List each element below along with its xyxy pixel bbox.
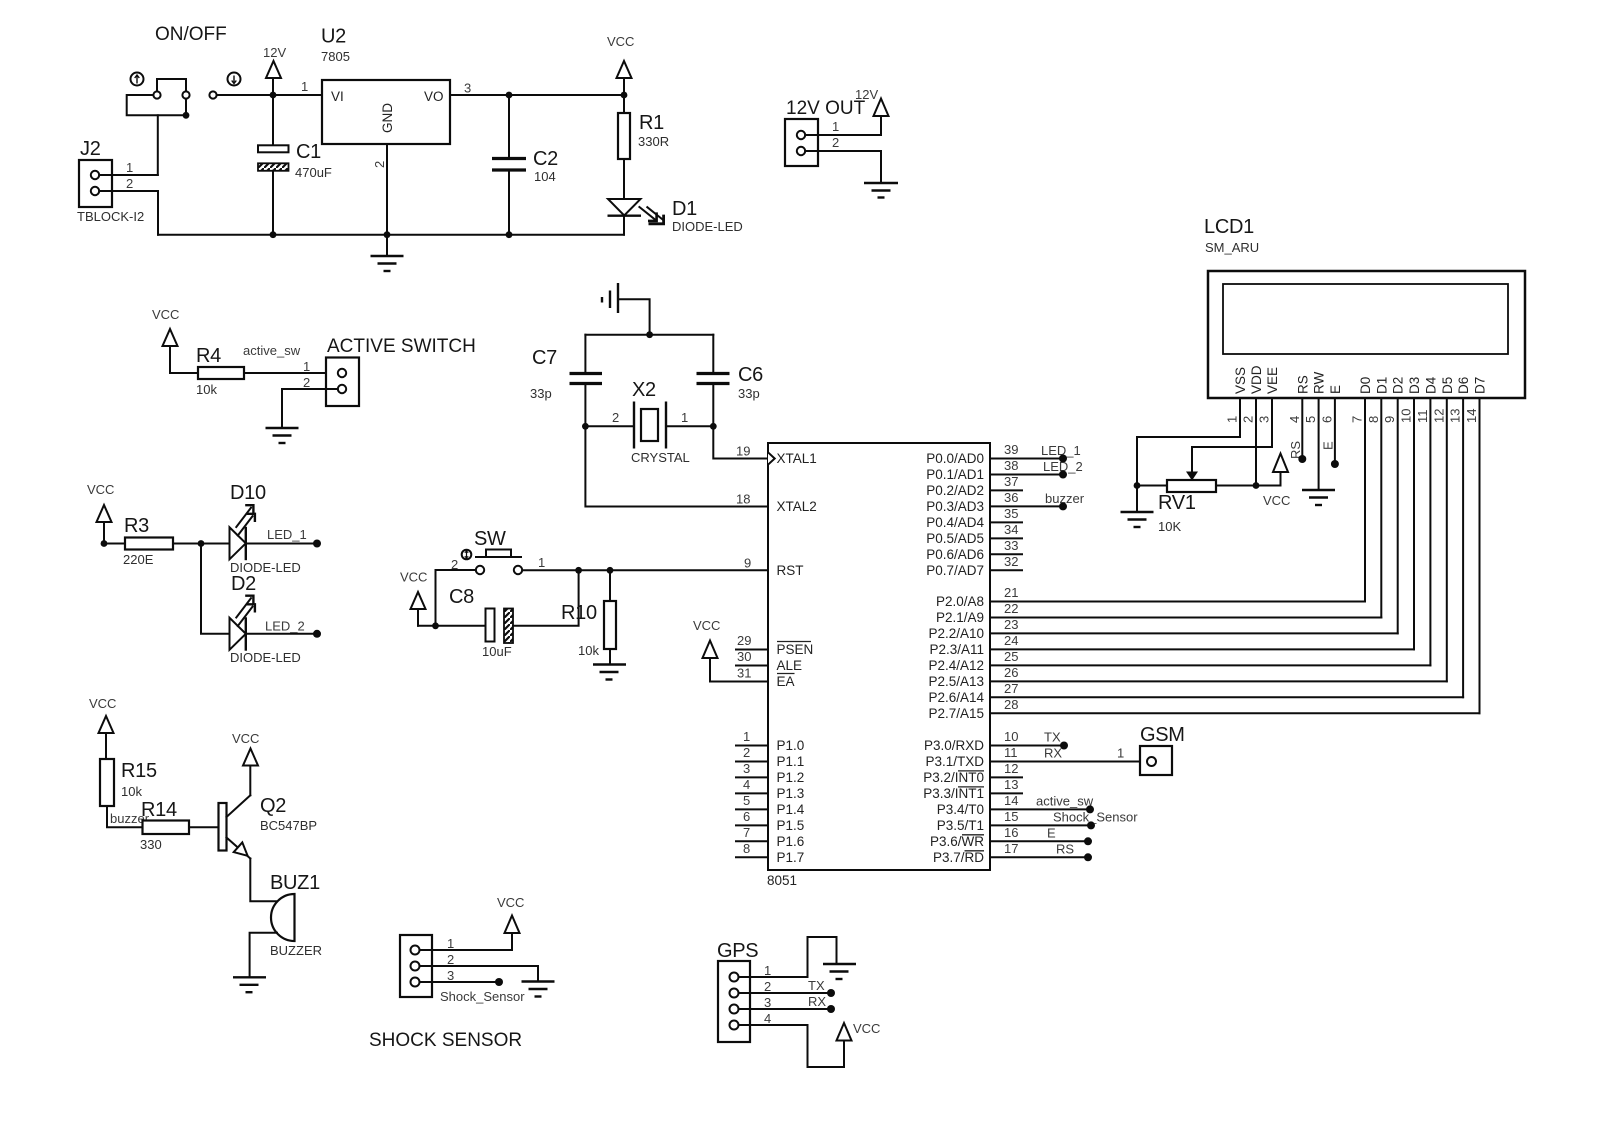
svg-text:R3: R3 — [124, 515, 149, 537]
svg-text:2: 2 — [126, 176, 133, 191]
svg-text:1: 1 — [126, 160, 133, 175]
svg-text:7805: 7805 — [321, 49, 350, 64]
svg-text:E: E — [1328, 385, 1343, 394]
8051 pin 5 P1.4 — [736, 793, 805, 817]
wire stub pin 37 — [990, 489, 1022, 491]
svg-text:12V: 12V — [263, 45, 286, 60]
svg-text:25: 25 — [1004, 649, 1018, 664]
svg-text:3: 3 — [464, 81, 471, 96]
resistor R14 330 — [140, 799, 189, 852]
svg-text:P2.3/A11: P2.3/A11 — [929, 642, 984, 657]
svg-text:VEE: VEE — [1265, 367, 1280, 394]
RV1 wiper arrowhead — [1186, 472, 1198, 481]
svg-text:RV1: RV1 — [1158, 492, 1196, 514]
svg-text:2: 2 — [303, 375, 310, 390]
svg-text:VCC: VCC — [497, 895, 524, 910]
wire stub pin 12 — [990, 776, 1022, 778]
svg-text:PSEN: PSEN — [777, 642, 814, 657]
svg-text:P2.6/A14: P2.6/A14 — [928, 690, 984, 705]
svg-text:R4: R4 — [196, 345, 221, 367]
svg-text:BUZZER: BUZZER — [270, 943, 322, 958]
svg-text:9: 9 — [1382, 416, 1397, 423]
svg-text:10k: 10k — [578, 643, 599, 658]
svg-text:Shock_Sensor: Shock_Sensor — [440, 989, 525, 1004]
svg-text:LED_1: LED_1 — [267, 527, 307, 542]
wire P2.7/A15 to LCD D7 — [990, 712, 1480, 714]
wire XTAL1 to 8051 pin 19 — [713, 426, 766, 458]
svg-text:10k: 10k — [121, 784, 142, 799]
wire LCD pin4 to terminal RS — [1288, 398, 1306, 463]
wire LCD D6 bus vertical — [1462, 398, 1464, 697]
junction C8 left node — [432, 622, 439, 629]
junction RST C8 — [575, 567, 582, 574]
8051 pin 19 XTAL1 clock marker — [768, 451, 817, 466]
svg-text:D6: D6 — [1456, 377, 1471, 394]
8051 pin 14 P3.4/T0 — [937, 793, 1019, 817]
svg-text:21: 21 — [1004, 585, 1018, 600]
capacitor C7 33p — [530, 335, 602, 427]
svg-text:16: 16 — [1004, 825, 1018, 840]
svg-text:VCC: VCC — [152, 307, 179, 322]
switch ON/OFF down-indicator — [228, 73, 241, 86]
svg-text:26: 26 — [1004, 665, 1018, 680]
svg-text:P2.1/A9: P2.1/A9 — [936, 610, 984, 625]
wire throw to 12V node — [217, 94, 273, 96]
svg-text:P0.2/AD2: P0.2/AD2 — [926, 483, 984, 498]
svg-text:TX: TX — [808, 978, 825, 993]
8051 pin 39 P0.0/AD0 — [926, 442, 1018, 466]
svg-text:3: 3 — [1257, 416, 1272, 423]
wire P2.2/A10 to LCD D2 — [990, 632, 1398, 634]
wire switch to J2 pin1 — [157, 115, 159, 175]
GSM module — [1140, 724, 1185, 775]
svg-text:2: 2 — [743, 745, 750, 760]
svg-text:D7: D7 — [1473, 377, 1488, 394]
svg-text:C2: C2 — [533, 148, 558, 170]
svg-text:X2: X2 — [632, 379, 656, 401]
svg-text:470uF: 470uF — [295, 165, 332, 180]
svg-text:29: 29 — [737, 633, 751, 648]
svg-text:Q2: Q2 — [260, 795, 286, 817]
LED D10 — [230, 482, 301, 575]
svg-text:C7: C7 — [532, 347, 557, 369]
svg-text:3: 3 — [743, 761, 750, 776]
svg-text:P2.4/A12: P2.4/A12 — [928, 658, 984, 673]
svg-text:BUZ1: BUZ1 — [270, 872, 320, 894]
svg-text:VCC: VCC — [232, 731, 259, 746]
svg-text:P1.2: P1.2 — [777, 770, 805, 785]
svg-text:P3.4/T0: P3.4/T0 — [937, 802, 984, 817]
svg-text:XTAL2: XTAL2 — [777, 499, 817, 514]
svg-text:P3.1/TXD: P3.1/TXD — [925, 754, 984, 769]
8051 pin 36 P0.3/AD3 — [926, 490, 1018, 514]
svg-text:17: 17 — [1004, 841, 1018, 856]
svg-text:P3.3/INT1: P3.3/INT1 — [923, 786, 984, 801]
svg-text:R14: R14 — [141, 799, 177, 821]
GPS connector — [717, 940, 771, 1042]
wire 12V OUT pin2 — [805, 151, 881, 183]
ground sideways above crystal — [602, 283, 650, 335]
wire D2 to terminal LED_2 — [246, 619, 314, 634]
junction C2 top — [506, 92, 513, 99]
ground below RV1 — [1121, 512, 1154, 527]
8051 pin 27 P2.6/A14 — [928, 681, 1018, 705]
svg-text:P3.6/WR: P3.6/WR — [930, 834, 984, 849]
capacitor C8 10uF — [449, 586, 513, 659]
svg-text:31: 31 — [737, 666, 751, 681]
wire 12V node to U2 VI pin 1 — [273, 79, 322, 95]
ground below RW — [1302, 490, 1335, 505]
terminal dot LED_2 — [313, 630, 321, 638]
8051 pin 21 P2.0/A8 — [936, 585, 1019, 609]
svg-text:VO: VO — [424, 89, 444, 104]
capacitor C2 104 — [492, 95, 558, 235]
power flag 12V out — [855, 87, 889, 116]
buzzer BUZ1 — [270, 872, 322, 958]
svg-text:DIODE-LED: DIODE-LED — [672, 219, 743, 234]
wire LCD D3 bus vertical — [1413, 398, 1415, 649]
power flag VCC for R15 — [89, 696, 116, 759]
8051 pin 37 P0.2/AD2 — [926, 474, 1018, 498]
wire U2 GND pin 2 — [386, 144, 388, 235]
svg-text:10K: 10K — [1158, 519, 1181, 534]
terminal dot LED_1 — [313, 540, 321, 548]
regulator U2 7805 — [321, 26, 450, 169]
power flag VCC for R4 — [152, 307, 179, 373]
wire shock pin3 to terminal Shock_Sensor — [420, 978, 526, 1004]
svg-text:23: 23 — [1004, 617, 1018, 632]
svg-text:GPS: GPS — [717, 940, 758, 962]
junction crystal top rail — [646, 331, 653, 338]
svg-text:4: 4 — [743, 777, 750, 792]
svg-text:RX: RX — [1044, 746, 1062, 761]
svg-text:4: 4 — [1287, 416, 1302, 423]
svg-text:P2.5/A13: P2.5/A13 — [928, 674, 984, 689]
wire LCD D4 bus vertical — [1429, 398, 1431, 665]
svg-text:VCC: VCC — [853, 1021, 880, 1036]
svg-text:34: 34 — [1004, 522, 1018, 537]
IC U1 8051 body — [767, 443, 990, 888]
8051 pin 35 P0.4/AD4 — [926, 506, 1018, 530]
svg-text:2: 2 — [372, 161, 387, 168]
junction LED branch — [198, 540, 205, 547]
8051 pin 31 EA — [737, 666, 795, 690]
svg-text:VCC: VCC — [400, 570, 427, 585]
svg-text:Shock_Sensor: Shock_Sensor — [1053, 809, 1138, 824]
svg-text:LED_2: LED_2 — [265, 619, 305, 634]
svg-text:VSS: VSS — [1233, 367, 1248, 394]
wire SW pin2 to VCC node — [436, 570, 476, 626]
svg-text:GSM: GSM — [1140, 724, 1185, 746]
svg-text:P3.5/T1: P3.5/T1 — [937, 818, 984, 833]
8051 pin 7 P1.6 — [736, 825, 804, 849]
power flag VCC for VDD — [1256, 454, 1290, 509]
svg-text:2: 2 — [1241, 416, 1256, 423]
power flag 12V input — [263, 45, 286, 95]
8051 pin 1 P1.0 — [736, 729, 804, 753]
svg-text:LCD1: LCD1 — [1204, 216, 1254, 238]
svg-text:5: 5 — [743, 793, 750, 808]
svg-text:P0.4/AD4: P0.4/AD4 — [926, 515, 984, 530]
8051 pin 2 P1.1 — [736, 745, 804, 769]
svg-text:27: 27 — [1004, 681, 1018, 696]
svg-text:P3.2/INT0: P3.2/INT0 — [923, 770, 984, 785]
junction switch common — [183, 112, 190, 119]
wire crystal top rail — [585, 334, 713, 336]
svg-text:10: 10 — [1004, 729, 1018, 744]
svg-text:18: 18 — [736, 492, 750, 507]
svg-text:P1.0: P1.0 — [777, 738, 805, 753]
svg-text:7: 7 — [1350, 416, 1365, 423]
junction C1 bottom — [270, 231, 277, 238]
wire pin 38 to terminal LED_2 — [990, 459, 1083, 479]
wire buzzer bottom to ground — [250, 933, 277, 978]
svg-text:33p: 33p — [530, 386, 552, 401]
svg-text:33p: 33p — [738, 386, 760, 401]
svg-text:1: 1 — [743, 729, 750, 744]
wire SW pin1 to 8051 RST pin 9 — [522, 556, 768, 571]
svg-text:1: 1 — [764, 963, 771, 978]
svg-text:P0.3/AD3: P0.3/AD3 — [926, 499, 984, 514]
ground below R10 — [593, 665, 626, 680]
svg-text:SW: SW — [474, 528, 506, 550]
wire R14 to Q2 base — [189, 826, 219, 828]
crystal X2 — [585, 379, 713, 465]
junction R1 top — [621, 92, 628, 99]
wire switch right contact drop — [185, 99, 187, 116]
resistor R3 220E — [123, 515, 173, 567]
wire VCC node to C8 — [418, 625, 486, 627]
svg-text:36: 36 — [1004, 490, 1018, 505]
wire ground rail — [158, 234, 624, 236]
8051 pin 4 P1.3 — [736, 777, 804, 801]
svg-text:P0.5/AD5: P0.5/AD5 — [926, 531, 984, 546]
svg-text:E: E — [1321, 441, 1336, 450]
svg-text:P1.1: P1.1 — [777, 754, 805, 769]
svg-text:ON/OFF: ON/OFF — [155, 24, 227, 45]
svg-text:ACTIVE SWITCH: ACTIVE SWITCH — [327, 336, 476, 357]
wire Q2 emitter to buzzer — [250, 859, 276, 902]
svg-text:VCC: VCC — [89, 696, 116, 711]
wire LCD D1 bus vertical — [1380, 398, 1382, 618]
push button SW — [451, 528, 545, 574]
wire pin 16 to terminal E — [990, 825, 1092, 845]
svg-text:RS: RS — [1056, 841, 1074, 856]
wire R15 to R14, net buzzer — [107, 806, 150, 827]
wire P2.0/A8 to LCD D0 — [990, 601, 1365, 603]
svg-text:P0.7/AD7: P0.7/AD7 — [926, 563, 984, 578]
svg-text:1: 1 — [301, 79, 308, 94]
svg-text:10uF: 10uF — [482, 644, 512, 659]
svg-text:R15: R15 — [121, 760, 157, 782]
LED D1 — [608, 198, 743, 235]
svg-text:C1: C1 — [296, 141, 321, 163]
ground active switch — [266, 428, 299, 443]
wire 12V OUT pin1 — [805, 116, 881, 135]
svg-text:E: E — [1047, 825, 1056, 840]
svg-text:11: 11 — [1004, 745, 1018, 760]
wire LCD pin3 VEE to RV1 wiper — [1192, 398, 1272, 473]
svg-text:8: 8 — [743, 841, 750, 856]
svg-text:RS: RS — [1295, 375, 1310, 394]
wire stub pin 13 — [990, 792, 1022, 794]
wire stub pin 34 — [990, 537, 1022, 539]
svg-text:VDD: VDD — [1249, 365, 1264, 394]
svg-text:ALE: ALE — [777, 658, 803, 673]
wire LCD D5 bus vertical — [1446, 398, 1448, 681]
power flag VCC for GPS — [837, 1021, 881, 1041]
8051 pin 34 P0.5/AD5 — [926, 522, 1018, 546]
svg-text:P1.3: P1.3 — [777, 786, 805, 801]
svg-text:1: 1 — [447, 936, 454, 951]
8051 pin 3 P1.2 — [736, 761, 804, 785]
wire LCD D7 bus vertical — [1479, 398, 1481, 713]
svg-text:35: 35 — [1004, 506, 1018, 521]
svg-text:VCC: VCC — [87, 482, 114, 497]
svg-text:6: 6 — [1319, 416, 1334, 423]
wire J2 pin1 — [99, 174, 158, 176]
svg-text:C6: C6 — [738, 364, 763, 386]
connector ACTIVE SWITCH — [326, 358, 359, 407]
svg-text:10: 10 — [1399, 409, 1414, 423]
wire pin 11 to GSM pin 1 — [990, 746, 1147, 762]
svg-text:1: 1 — [681, 410, 688, 425]
LED D10 emission arrows — [236, 505, 255, 535]
ground shock sensor — [522, 982, 555, 997]
8051 pin 26 P2.5/A13 — [928, 665, 1018, 689]
svg-text:2: 2 — [764, 979, 771, 994]
svg-text:D5: D5 — [1440, 377, 1455, 394]
LED D2 — [230, 573, 301, 665]
wire VCC to R4 — [170, 372, 198, 374]
8051 pin 16 P3.6/WR — [930, 825, 1018, 849]
8051 pin 11 P3.1/TXD — [925, 745, 1017, 769]
wire C8 right to RST rail — [513, 570, 579, 626]
potentiometer RV1 10K — [1137, 480, 1256, 534]
wire P2.4/A12 to LCD D4 — [990, 664, 1430, 666]
wire P2.1/A9 to LCD D1 — [990, 617, 1381, 619]
switch ON/OFF up-indicator — [131, 73, 144, 86]
wire XTAL2 to 8051 pin 18 — [585, 426, 768, 506]
switch ON/OFF contact left — [153, 91, 160, 98]
8051 pin 22 P2.1/A9 — [936, 601, 1019, 625]
8051 pin 10 P3.0/RXD — [924, 729, 1019, 753]
capacitor C6 33p — [697, 335, 764, 427]
svg-text:38: 38 — [1004, 458, 1018, 473]
svg-text:P0.0/AD0: P0.0/AD0 — [926, 451, 984, 466]
svg-text:SM_ARU: SM_ARU — [1205, 240, 1259, 255]
resistor R15 10k — [100, 759, 157, 806]
wire pin 15 to terminal Shock_Sensor — [990, 809, 1138, 829]
wire shock pin1 to VCC — [420, 933, 513, 950]
wire LCD pin2 VDD down — [1255, 398, 1257, 486]
junction XTAL2 node — [582, 423, 589, 430]
svg-text:330R: 330R — [638, 134, 669, 149]
LCD module LCD1 SM_ARU — [1204, 216, 1525, 398]
svg-text:VCC: VCC — [1263, 493, 1290, 508]
svg-text:GND: GND — [380, 103, 395, 133]
SHOCK SENSOR connector — [400, 935, 454, 997]
power flag VCC for EA — [693, 618, 768, 682]
svg-text:P1.5: P1.5 — [777, 818, 805, 833]
wire R4 to connector, net active_sw — [243, 343, 338, 390]
push button SW actuator indicator — [462, 550, 472, 560]
wire R3 to D10 — [173, 543, 230, 545]
svg-text:R1: R1 — [639, 112, 664, 134]
8051 pin 15 P3.5/T1 — [937, 809, 1019, 833]
svg-text:C8: C8 — [449, 586, 474, 608]
resistor R4 10k — [196, 345, 244, 397]
8051 pin 33 P0.6/AD6 — [926, 538, 1018, 562]
svg-text:P0.6/AD6: P0.6/AD6 — [926, 547, 984, 562]
svg-text:D10: D10 — [230, 482, 266, 504]
LED D2 emission arrows — [236, 596, 255, 626]
power flag VCC for Q2 collector — [232, 731, 259, 795]
wire pin 39 to terminal LED_1 — [990, 443, 1081, 463]
svg-text:2: 2 — [612, 410, 619, 425]
svg-text:30: 30 — [737, 649, 751, 664]
8051 pin 29 PSEN — [736, 633, 813, 657]
resistor R1 330R — [618, 95, 669, 200]
junction GND rail — [384, 231, 391, 238]
wire P2.5/A13 to LCD D5 — [990, 680, 1447, 682]
svg-text:P2.0/A8: P2.0/A8 — [936, 594, 984, 609]
svg-text:VCC: VCC — [607, 34, 634, 49]
wire D10 to terminal LED_1 — [246, 527, 314, 544]
connector 12V OUT — [785, 98, 866, 166]
8051 pin 38 P0.1/AD1 — [926, 458, 1018, 482]
svg-text:D0: D0 — [1358, 377, 1373, 394]
resistor R10 10k — [561, 570, 616, 664]
svg-text:P2.7/A15: P2.7/A15 — [928, 706, 984, 721]
svg-text:2: 2 — [447, 952, 454, 967]
svg-text:EA: EA — [777, 674, 795, 689]
ground 12V OUT — [864, 183, 898, 198]
LED D1 emission arrows — [639, 207, 663, 224]
svg-text:1: 1 — [1225, 416, 1240, 423]
power flag VCC for C8 — [400, 570, 427, 626]
8051 pin 8 P1.7 — [736, 841, 804, 865]
svg-text:10k: 10k — [196, 382, 217, 397]
svg-text:12V: 12V — [855, 87, 878, 102]
svg-text:SHOCK SENSOR: SHOCK SENSOR — [369, 1030, 522, 1051]
svg-text:VI: VI — [331, 89, 344, 104]
wire shock pin2 to ground — [420, 966, 539, 982]
connector J2 — [77, 138, 144, 224]
junction VDD RV1 — [1253, 482, 1260, 489]
power flag VCC for shock sensor — [497, 895, 524, 933]
svg-text:P3.7/RD: P3.7/RD — [933, 850, 984, 865]
svg-text:22: 22 — [1004, 601, 1018, 616]
svg-text:1: 1 — [303, 359, 310, 374]
wire VCC node to R3 — [104, 543, 125, 545]
svg-text:3: 3 — [764, 995, 771, 1010]
svg-text:P3.0/RXD: P3.0/RXD — [924, 738, 984, 753]
wire stub pin 33 — [990, 553, 1022, 555]
power flag VCC for R3 — [87, 482, 114, 544]
svg-text:D2: D2 — [1391, 377, 1406, 394]
svg-text:5: 5 — [1303, 416, 1318, 423]
svg-text:TBLOCK-I2: TBLOCK-I2 — [77, 209, 144, 224]
8051 pin 32 P0.7/AD7 — [926, 554, 1018, 578]
svg-text:XTAL1: XTAL1 — [777, 451, 817, 466]
svg-text:19: 19 — [736, 444, 750, 459]
svg-text:P0.1/AD1: P0.1/AD1 — [926, 467, 984, 482]
svg-text:D4: D4 — [1423, 376, 1438, 394]
node VI junction — [270, 92, 277, 99]
svg-text:D1: D1 — [672, 198, 697, 220]
svg-text:24: 24 — [1004, 633, 1018, 648]
